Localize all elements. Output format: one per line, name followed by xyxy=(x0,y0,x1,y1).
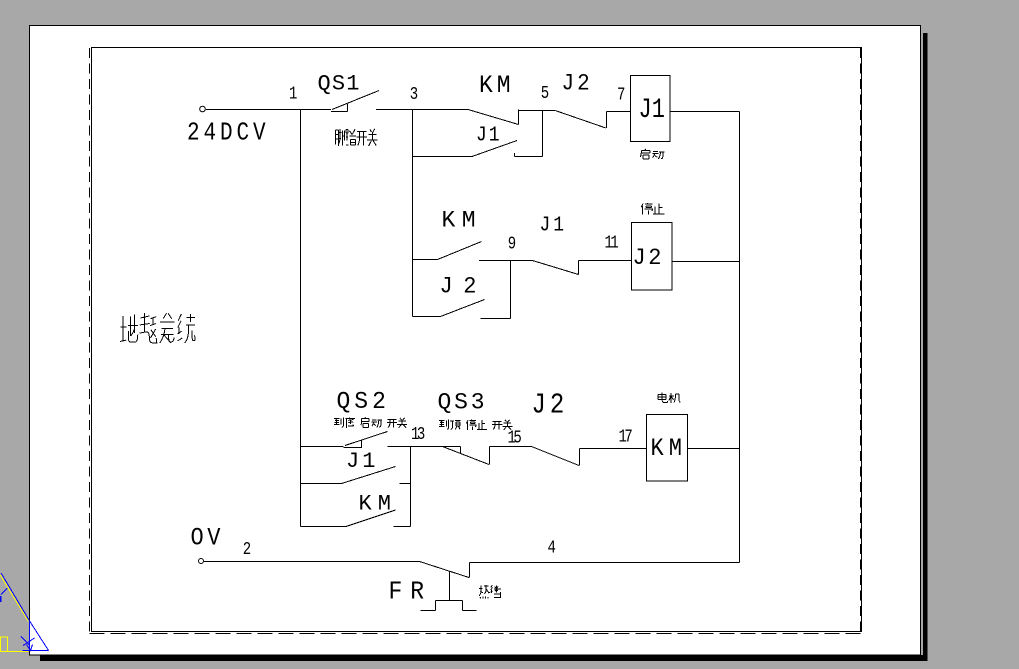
wire left bus to QS2 xyxy=(301,446,344,448)
switch QS3 (NC) xyxy=(443,447,490,465)
svg-text:KM: KM xyxy=(651,435,687,464)
label 到底 启动 开关 xyxy=(334,418,407,428)
svg-text:24DCV: 24DCV xyxy=(187,119,270,149)
svg-text:17: 17 xyxy=(619,426,633,447)
ucs yellow baseline xyxy=(0,651,29,653)
node 5 riser wire xyxy=(542,111,544,157)
svg-text:9: 9 xyxy=(508,233,516,254)
node 13 riser wire xyxy=(410,447,412,527)
svg-text:J2: J2 xyxy=(532,389,569,422)
label 脚踏开关 xyxy=(336,129,378,146)
wire coil J2 to right bus xyxy=(672,261,740,263)
switch QS1 xyxy=(331,91,379,112)
ucs yellow highlight diagonal xyxy=(0,575,28,622)
label 停止 xyxy=(641,203,664,215)
svg-text:J1: J1 xyxy=(346,449,378,474)
svg-text:5: 5 xyxy=(541,82,549,103)
svg-text:15: 15 xyxy=(508,427,522,448)
contact KM (row1) xyxy=(413,110,519,125)
wire coil KM to right bus xyxy=(688,448,740,450)
wire coil J1 to right bus xyxy=(670,111,740,113)
svg-text:KM: KM xyxy=(479,72,515,100)
svg-text:11: 11 xyxy=(605,232,619,253)
plot margin dashed bottom xyxy=(90,633,862,635)
ucs yellow W box xyxy=(1,637,8,651)
ucs blue arrowhead xyxy=(27,645,33,651)
node 3 riser wire xyxy=(412,110,414,317)
contact J2 (row2 parallel) xyxy=(413,300,511,319)
coil KM (contactor) xyxy=(647,415,688,482)
svg-text:J2: J2 xyxy=(633,244,664,271)
contact KM (row2) xyxy=(413,242,511,261)
svg-text:QS2: QS2 xyxy=(337,388,390,416)
title 地毯卷绕 xyxy=(120,313,195,343)
label 电机 xyxy=(658,393,680,403)
thermal relay FR contact xyxy=(420,562,470,578)
terminal 0V xyxy=(199,559,204,564)
wire J1NC to coil J2 xyxy=(579,260,632,262)
coil J1 (relay) xyxy=(631,76,671,142)
svg-text:13: 13 xyxy=(411,423,425,444)
svg-text:1: 1 xyxy=(289,83,297,104)
svg-text:4: 4 xyxy=(548,537,556,558)
terminal 24DCV xyxy=(200,106,206,112)
node 9 riser wire xyxy=(510,261,512,319)
right bus wire xyxy=(739,112,741,563)
wire KM to J2NC row1 xyxy=(519,110,556,112)
drawing frame rectangle xyxy=(92,48,862,632)
ucs blue Y-axis stub xyxy=(1,588,7,595)
svg-text:J2: J2 xyxy=(562,71,593,97)
label 热继 xyxy=(479,585,501,599)
wire QS2 to QS3 xyxy=(388,446,443,448)
thermal relay FR heater element xyxy=(421,572,477,611)
ucs blue triangle xyxy=(23,621,49,651)
svg-text:KM: KM xyxy=(442,208,483,234)
svg-text:7: 7 xyxy=(617,84,625,105)
label 启动 xyxy=(640,149,664,159)
ucs blue diagonal xyxy=(1,573,29,621)
svg-text:3: 3 xyxy=(410,83,418,104)
svg-text:OV: OV xyxy=(191,524,224,553)
contact J1 NC row2 xyxy=(511,261,579,275)
contact J1 (row4 parallel) xyxy=(301,467,411,484)
svg-text:QS3: QS3 xyxy=(438,390,488,416)
contact J2 NC row1 xyxy=(555,111,606,129)
svg-text:KM: KM xyxy=(359,492,397,517)
svg-text:2: 2 xyxy=(243,538,251,559)
svg-text:J2: J2 xyxy=(440,273,487,300)
wire QS3 to J2 contact xyxy=(490,446,532,448)
plot margin dashed left xyxy=(89,48,91,634)
svg-text:J1: J1 xyxy=(476,123,502,147)
switch QS2 xyxy=(344,432,388,448)
contact KM (row5 parallel) xyxy=(301,510,411,527)
ucs blue X letter xyxy=(21,637,35,646)
svg-text:FR: FR xyxy=(389,578,433,607)
svg-text:J1: J1 xyxy=(540,212,568,237)
plot margin dashed right xyxy=(860,48,862,634)
wire node2 segment xyxy=(204,561,420,563)
wire J2NC to coil J1 xyxy=(607,111,631,113)
svg-text:QS1: QS1 xyxy=(318,72,361,97)
label 到顶 停止 开关 xyxy=(439,420,512,430)
wire FR to right bus (node 4) xyxy=(470,562,740,564)
wire J2 contact to coil KM xyxy=(580,448,647,450)
wire QS1 to node3 xyxy=(376,109,413,111)
wire node1 segment xyxy=(206,109,331,111)
UCS paper space icon xyxy=(0,573,49,652)
coil J2 (relay) xyxy=(632,223,673,291)
svg-text:J1: J1 xyxy=(639,95,665,126)
contact J2 NC row3 xyxy=(532,447,580,466)
left bus wire (node 1 down) xyxy=(300,110,302,527)
contact J1 parallel branch row1 xyxy=(413,141,543,157)
